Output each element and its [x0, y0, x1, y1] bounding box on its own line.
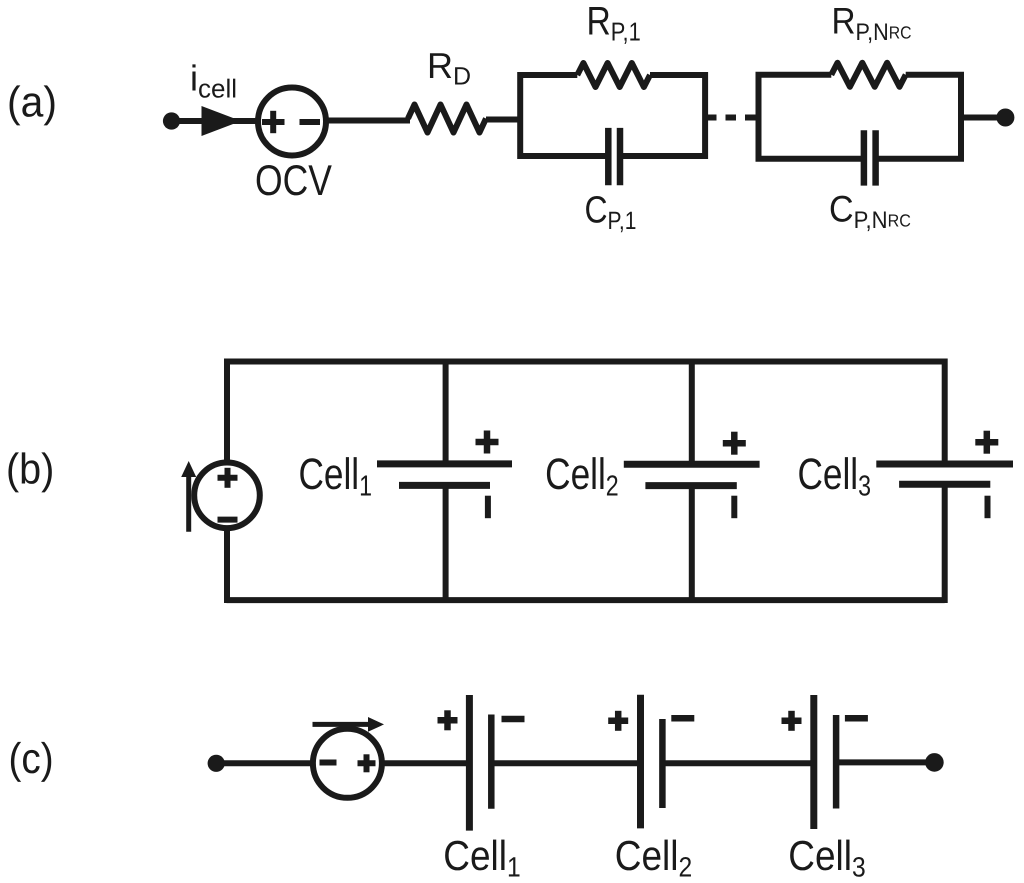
- svg-text:CP,1: CP,1: [585, 190, 637, 236]
- cell 2 (b) battery Cell2: [624, 464, 760, 485]
- cell 3 (b) wire lower right rail: [942, 484, 948, 603]
- svg-text:Cell2: Cell2: [545, 450, 619, 503]
- wire top rail (b): [227, 359, 945, 365]
- cell 2 (b) plus mark: [723, 432, 746, 455]
- svg-text:(b): (b): [6, 446, 54, 494]
- wire left rail lower (b): [224, 528, 230, 603]
- cell 3 (c) plus mark: [782, 711, 802, 731]
- wire left rail upper (b): [224, 359, 230, 464]
- panel label (b): [6, 446, 54, 494]
- wire left (c): [216, 760, 314, 766]
- capacitor C_P,1: [608, 128, 620, 185]
- panel label (c): [9, 735, 54, 783]
- wire bottom rail (b): [227, 597, 945, 603]
- resistor R_P,1: [577, 63, 650, 87]
- cell 1 (b) minus mark: [485, 496, 491, 519]
- cell 1 (b) battery Cell1: [377, 464, 512, 486]
- voltage source OCV U1: [258, 88, 326, 156]
- label Cell2 (c): [615, 832, 692, 883]
- label Cell3 (b): [797, 450, 871, 503]
- cell 1 (b) wire upper: [443, 362, 449, 465]
- label Cell2 (b): [545, 450, 619, 503]
- cell 3 (b) minus mark: [985, 496, 991, 519]
- cell 1 (c) minus mark: [502, 716, 525, 723]
- current source (b): [194, 463, 260, 529]
- node left terminal (c): [208, 755, 225, 772]
- cell 2 (b) wire upper: [689, 362, 695, 465]
- cell 2 (c) plus mark: [608, 711, 628, 731]
- current direction arrow (b): [181, 461, 196, 532]
- cell 3 (b) plus mark: [975, 431, 998, 454]
- cell 1 (c) plus mark: [438, 710, 458, 730]
- svg-text:Cell2: Cell2: [615, 832, 692, 883]
- RC box 1 frame: [520, 75, 705, 156]
- node input terminal (a): [163, 112, 180, 129]
- svg-text:RP,NRC: RP,NRC: [832, 1, 912, 47]
- label Cell3 (c): [788, 832, 865, 883]
- label C_P,NRC: [829, 189, 911, 235]
- wire OCV to RD: [326, 118, 410, 124]
- cell 3 (b) battery Cell3: [876, 464, 1013, 484]
- cell 2 (c) battery Cell2: [641, 695, 663, 829]
- RC box 2 frame: [759, 75, 962, 159]
- cell 2 (b) minus mark: [731, 496, 737, 519]
- cell 2 (b) wire lower: [689, 486, 695, 600]
- current direction arrow (c): [313, 717, 385, 732]
- svg-text:OCV: OCV: [255, 157, 332, 205]
- wire cell3 to right terminal (c): [836, 759, 934, 765]
- label R_P,1: [587, 0, 641, 46]
- node right terminal (c): [925, 753, 944, 772]
- resistor R_D: [408, 105, 486, 133]
- cell 1 (b) wire lower: [443, 485, 449, 600]
- label Cell1 (b): [298, 450, 372, 503]
- cell 3 (c) minus mark: [845, 715, 868, 722]
- cell 2 (c) minus mark: [671, 715, 694, 722]
- label R_P,NRC: [832, 1, 912, 47]
- cell 3 (b) wire upper right rail: [942, 359, 948, 465]
- svg-text:Cell3: Cell3: [788, 832, 865, 883]
- label C_P,1: [585, 190, 637, 236]
- cell 3 (c) battery Cell3: [814, 695, 836, 829]
- label OCV: [255, 157, 332, 205]
- svg-text:Cell1: Cell1: [298, 450, 372, 503]
- capacitor C_P,NRC: [864, 130, 876, 185]
- svg-text:(a): (a): [7, 79, 57, 127]
- panel label (a): [7, 79, 57, 127]
- cell 1 (c) battery Cell1: [469, 695, 491, 831]
- svg-text:Cell3: Cell3: [797, 450, 871, 503]
- wire box2 to output: [961, 115, 1006, 121]
- dashed wire between RC pairs: [706, 115, 759, 121]
- label Cell1 (c): [443, 832, 520, 883]
- current arrow i_cell: [202, 106, 242, 136]
- svg-text:(c): (c): [9, 735, 54, 783]
- svg-text:RD: RD: [427, 45, 471, 91]
- svg-text:RP,1: RP,1: [587, 0, 641, 46]
- wire cell1 to cell2 (c): [491, 760, 641, 766]
- cell 1 (b) plus mark: [476, 431, 499, 454]
- svg-text:CP,NRC: CP,NRC: [829, 189, 911, 235]
- node output terminal (a): [996, 109, 1014, 127]
- voltage source (c): [313, 729, 382, 798]
- wire RD to box1: [486, 117, 521, 123]
- svg-text:Cell1: Cell1: [443, 832, 520, 883]
- resistor R_P,NRC: [831, 63, 905, 87]
- svg-text:icell: icell: [190, 58, 237, 104]
- wire source to cell1 (c): [381, 760, 470, 766]
- wire input (a): [172, 118, 261, 124]
- wire cell2 to cell3 (c): [662, 760, 814, 766]
